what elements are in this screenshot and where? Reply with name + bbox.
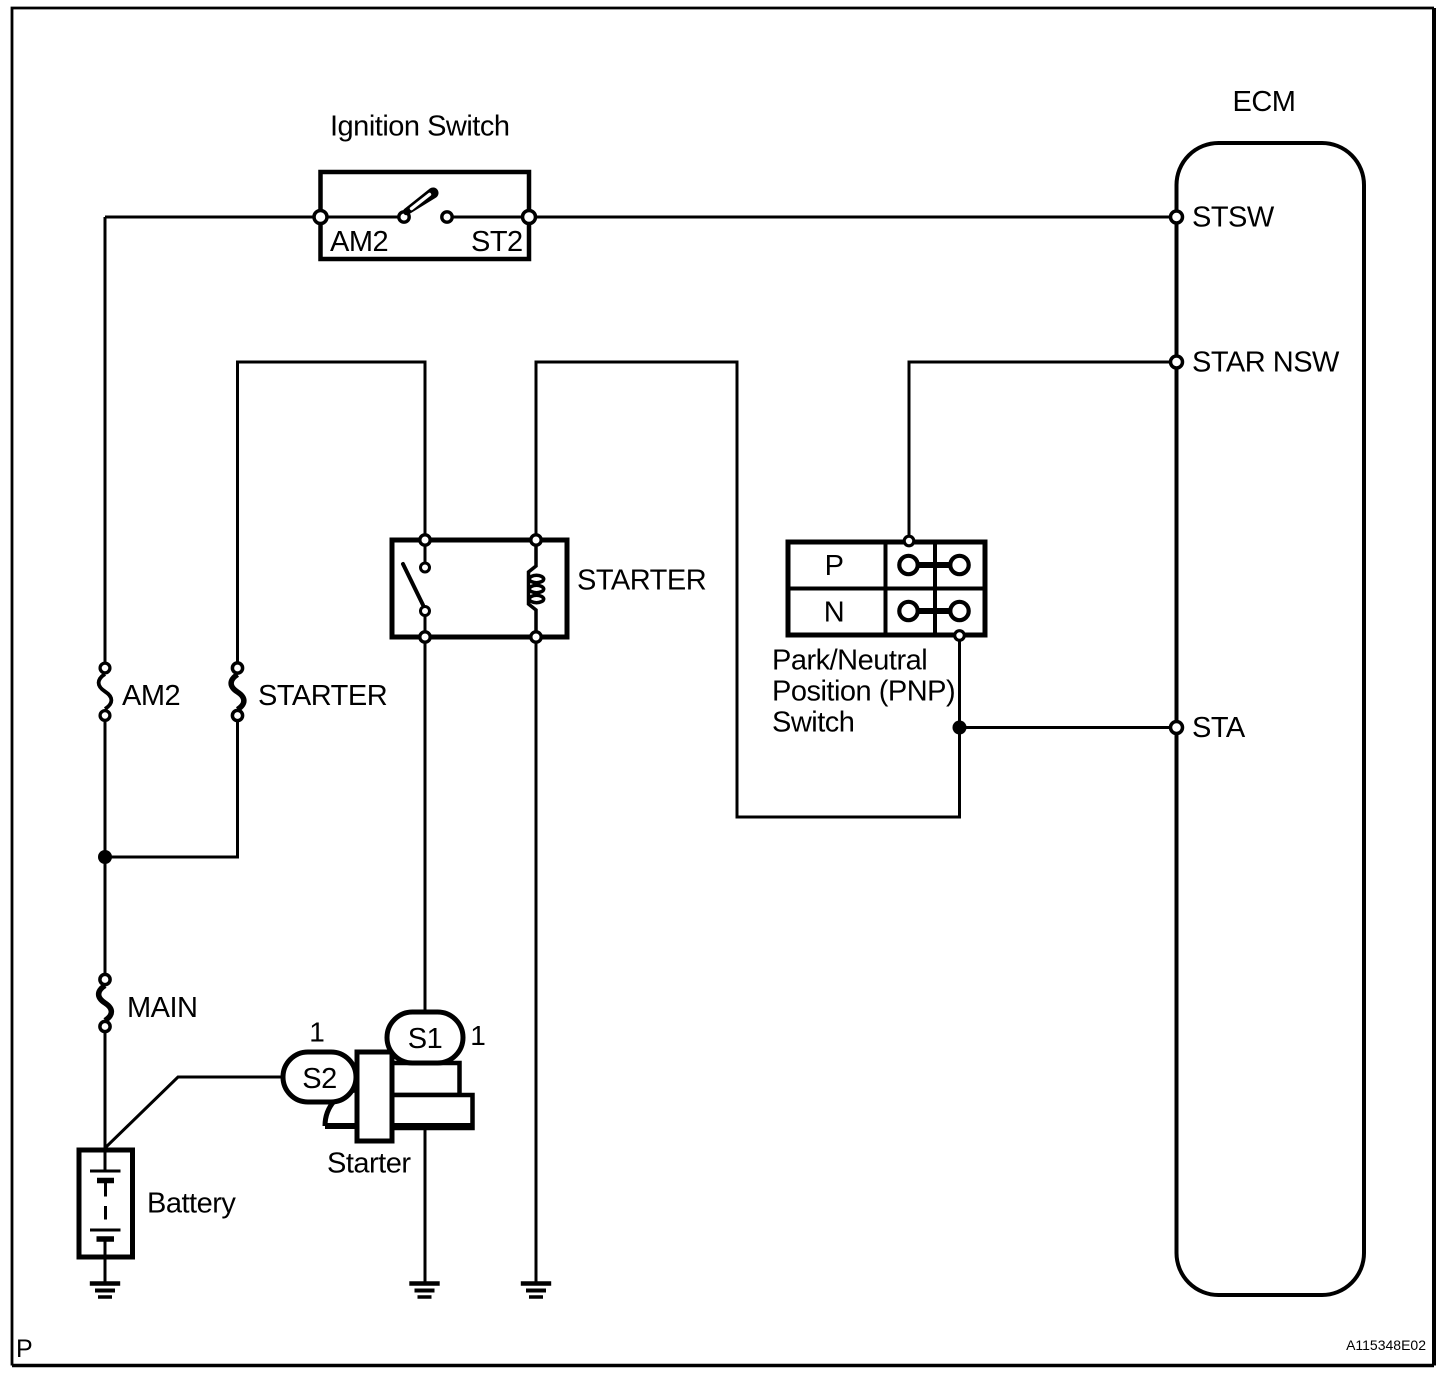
wire battery to S2 diagonal <box>105 1077 283 1148</box>
PNP top pin <box>904 536 914 546</box>
svg-text:AM2: AM2 <box>330 226 388 258</box>
pin STAR NSW <box>1171 356 1183 368</box>
wire PNP top to STAR NSW <box>909 362 1177 540</box>
ground starter motor <box>409 1284 439 1298</box>
PNP middle divider <box>788 587 985 591</box>
svg-text:Position (PNP): Position (PNP) <box>772 676 955 708</box>
svg-text:S2: S2 <box>302 1063 336 1095</box>
ignition switch pin AM2 <box>314 211 327 224</box>
PNP N row contact left <box>899 602 917 620</box>
ignition switch lever <box>403 187 439 215</box>
relay pin top right <box>531 535 541 545</box>
svg-text:MAIN: MAIN <box>127 992 198 1024</box>
svg-text:AM2: AM2 <box>122 680 180 712</box>
PNP P row bar <box>909 562 960 568</box>
ECM body <box>1177 143 1365 1295</box>
wire starter motor to ground <box>424 1126 427 1283</box>
svg-text:STARTER: STARTER <box>577 565 706 597</box>
battery plate long top <box>90 1170 121 1173</box>
svg-text:1: 1 <box>470 1020 486 1051</box>
starter motor brush block <box>357 1052 392 1141</box>
relay pin top left <box>420 535 430 545</box>
svg-text:S1: S1 <box>408 1023 442 1055</box>
node junction B <box>953 721 967 735</box>
svg-text:P: P <box>825 550 844 582</box>
starter terminal S2 <box>283 1052 356 1102</box>
ignition switch contact right <box>442 212 452 222</box>
relay pin bottom left <box>420 632 430 642</box>
svg-text:STA: STA <box>1192 712 1246 744</box>
relay coil <box>529 540 537 637</box>
svg-text:Park/Neutral: Park/Neutral <box>772 645 927 677</box>
wire junction to STARTER fuse branch <box>105 715 238 857</box>
battery box <box>79 1150 133 1257</box>
wire junction to STA <box>960 726 1177 729</box>
svg-text:Ignition Switch: Ignition Switch <box>330 111 510 143</box>
svg-text:STARTER: STARTER <box>258 680 387 712</box>
pin STA <box>1171 722 1183 734</box>
wire STARTER fuse up and over to relay switch <box>238 362 426 669</box>
PNP vertical divider 1 <box>884 542 888 635</box>
wire relay switch to S1 <box>424 637 427 1012</box>
starter motor base bar <box>325 1123 473 1129</box>
battery plate short top <box>97 1178 114 1184</box>
battery dashed center <box>104 1183 107 1221</box>
battery plate short bottom <box>97 1236 115 1242</box>
wire AM2 fuse to MAIN fuse <box>104 715 107 979</box>
starter motor dome <box>325 1090 358 1126</box>
wire MAIN fuse to battery <box>104 1027 107 1150</box>
fuse STARTER <box>231 675 244 710</box>
wire PNP bottom pin down <box>958 635 961 728</box>
PNP N row contact right <box>950 602 968 620</box>
ignition switch contact left <box>399 212 409 222</box>
wire STSW right segment <box>447 216 1177 219</box>
PNP switch box <box>788 542 985 635</box>
svg-text:Battery: Battery <box>147 1188 236 1220</box>
relay switch stub bottom <box>424 611 427 637</box>
wire relay coil to ground <box>535 637 538 1283</box>
svg-text:A115348E02: A115348E02 <box>1346 1337 1426 1353</box>
PNP N row bar <box>909 608 960 614</box>
wire left vertical to AM2 fuse <box>104 217 107 669</box>
svg-text:ST2: ST2 <box>471 226 523 258</box>
starter motor upper rect <box>390 1063 460 1095</box>
svg-text:STSW: STSW <box>1192 202 1275 234</box>
svg-text:N: N <box>824 597 844 629</box>
battery top lead <box>104 1150 107 1171</box>
PNP P row contact left <box>899 556 917 574</box>
ignition switch pin ST2 <box>523 211 536 224</box>
relay contact bottom <box>421 607 430 616</box>
PNP bottom pin <box>955 631 965 641</box>
svg-text:1: 1 <box>309 1017 325 1048</box>
wire relay coil up over and down to PNP loop <box>536 362 960 817</box>
ignition switch box <box>321 172 530 259</box>
relay pin bottom right <box>531 632 541 642</box>
PNP vertical divider 2 <box>933 542 937 635</box>
starter terminal S1 <box>387 1012 463 1063</box>
relay switch stub top <box>424 540 427 568</box>
relay switch blade <box>403 564 423 605</box>
pin STSW <box>1171 211 1183 223</box>
svg-text:ECM: ECM <box>1233 86 1296 118</box>
svg-text:Switch: Switch <box>772 707 854 739</box>
PNP P row contact right <box>950 556 968 574</box>
svg-text:STAR NSW: STAR NSW <box>1192 347 1340 379</box>
wire STSW left segment <box>105 216 404 219</box>
ground battery <box>90 1284 120 1298</box>
ground relay coil <box>521 1284 551 1298</box>
relay STARTER box <box>392 540 567 637</box>
fuse MAIN <box>99 986 112 1021</box>
relay contact top <box>421 563 430 572</box>
wire battery to ground <box>104 1241 107 1283</box>
svg-text:P: P <box>16 1335 33 1363</box>
battery plate long bottom <box>90 1229 121 1232</box>
fuse AM2 <box>99 674 112 709</box>
svg-text:Starter: Starter <box>327 1148 411 1180</box>
node junction A <box>98 850 112 864</box>
starter motor lower rect <box>390 1095 473 1128</box>
